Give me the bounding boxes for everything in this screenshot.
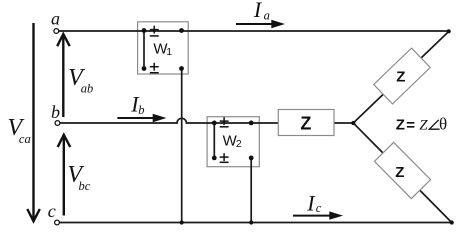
node c terminal circle	[55, 220, 60, 225]
svg-text:=: =	[406, 117, 415, 134]
wire: phase b line from node b to W2 with hop over dropper	[60, 118, 278, 123]
wire: from Z box to load center node	[334, 122, 353, 124]
svg-text:I: I	[306, 191, 316, 216]
svg-text:b: b	[138, 103, 144, 117]
svg-text:c: c	[48, 201, 56, 221]
svg-text:c: c	[316, 201, 322, 215]
wattmeter W2 terminal dot bottom-left	[212, 156, 217, 161]
wire: W1 potential coil dropper	[181, 69, 183, 223]
wattmeter W1 terminal dot top-right	[179, 28, 184, 33]
svg-text:Z: Z	[395, 164, 404, 181]
voltage arrow Vbc (c up to b)	[58, 135, 70, 216]
node a terminal circle	[54, 29, 59, 34]
svg-text:2: 2	[236, 138, 242, 150]
svg-text:ab: ab	[81, 81, 94, 95]
wattmeter W2 polarity mark bottom	[220, 153, 229, 162]
svg-text:Z: Z	[396, 117, 405, 134]
svg-text:bc: bc	[79, 179, 91, 193]
svg-text:a: a	[51, 9, 60, 29]
svg-text:b: b	[51, 102, 60, 122]
svg-text:1: 1	[166, 46, 172, 58]
junction dot at bottom-right corner	[450, 220, 454, 224]
wire: phase c line from node c to right corner	[59, 222, 451, 224]
svg-text:θ: θ	[439, 115, 447, 134]
wire: bottom diagonal from load center to corner c-line	[353, 123, 451, 223]
svg-text:ca: ca	[19, 132, 31, 146]
wattmeter W2 terminal dot bottom-right	[249, 156, 254, 161]
junction dot load center node	[351, 121, 355, 125]
wattmeter W1 box	[138, 22, 189, 74]
voltage arrow Vab (b up to a)	[57, 34, 69, 117]
impedance Z (top branch, rotated box)	[374, 48, 431, 104]
wattmeter W1 polarity mark top	[150, 26, 159, 36]
impedance Z (bottom branch, rotated box)	[374, 142, 430, 198]
wire: top diagonal from corner a-line to load center	[353, 32, 448, 124]
svg-text:Z: Z	[396, 69, 405, 86]
wattmeter W1 terminal dot bottom-left	[142, 66, 147, 71]
impedance Z (middle branch box)	[278, 110, 334, 136]
wattmeter W1 terminal dot top-left	[142, 28, 147, 33]
junction dot W1 dropper on c line	[180, 220, 184, 224]
wattmeter W2 polarity mark top	[220, 117, 229, 127]
current arrow Ia	[236, 20, 285, 28]
wire: phase a line from node a to right corner	[59, 30, 449, 32]
wattmeter W2 terminal dot top-right	[249, 121, 254, 126]
junction dot W2 dropper on c line	[249, 220, 253, 224]
wattmeter W1 terminal dot bottom-right	[179, 66, 184, 71]
wattmeter W2 terminal dot top-left	[212, 121, 217, 126]
node b terminal circle	[55, 121, 60, 126]
load impedance equation label	[396, 115, 447, 135]
wattmeter W2 box	[207, 117, 259, 167]
svg-text:a: a	[264, 9, 270, 23]
svg-text:I: I	[253, 0, 263, 22]
wire: W1 voltage coil internal link	[143, 31, 145, 69]
wire: W2 potential coil dropper	[250, 158, 252, 223]
current arrow Ic	[293, 211, 343, 219]
current arrow Ib	[117, 114, 166, 122]
svg-text:Z: Z	[419, 117, 428, 133]
svg-text:Z: Z	[300, 114, 311, 134]
voltage arrow Vca (a down to c)	[27, 23, 40, 221]
wire: W2 voltage coil internal link	[213, 123, 215, 158]
junction dot at top-right corner	[447, 29, 451, 33]
wattmeter W1 polarity mark bottom	[150, 63, 159, 73]
